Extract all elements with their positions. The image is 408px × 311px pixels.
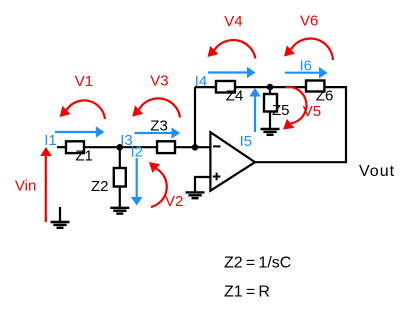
label V4 (224, 13, 242, 30)
wire Z5 branch (269, 87, 271, 94)
current arrow I1 (55, 126, 104, 138)
wire noninverting input (195, 177, 210, 192)
node Z5 junction (267, 84, 274, 91)
wire Z2 to ground (119, 187, 121, 209)
wire feedback riser (194, 87, 196, 147)
current arrow I3 (135, 127, 181, 139)
svg-text:V2: V2 (165, 193, 183, 210)
svg-text:Z3: Z3 (150, 117, 168, 134)
wire Z6 to output (255, 87, 346, 162)
svg-text:I4: I4 (195, 73, 208, 90)
ground noninverting input (186, 192, 205, 198)
svg-text:Z4: Z4 (226, 88, 244, 105)
wire Z4 to Z6 (235, 86, 306, 88)
label Z3 (150, 117, 168, 134)
label I4 (195, 73, 208, 90)
node feedback junction (192, 144, 199, 151)
node I3 (116, 144, 123, 151)
svg-text:V3: V3 (150, 73, 168, 90)
ground under Z2 (110, 208, 129, 214)
svg-text:V5: V5 (303, 103, 321, 120)
wire Z2 branch (119, 147, 121, 168)
voltage arrow V4 (208, 40, 256, 58)
svg-text:Z2 = 1/sC: Z2 = 1/sC (224, 254, 291, 271)
label Z1 (75, 148, 93, 165)
label V2 (165, 193, 183, 210)
wire Z1 to Z3 (84, 146, 157, 148)
impedance Z5 (264, 94, 277, 112)
label Z5 (272, 102, 290, 119)
label I6 (300, 58, 313, 75)
svg-text:I2: I2 (131, 144, 144, 161)
capacitor Z2 (114, 168, 126, 187)
resistor Z3 (157, 141, 175, 153)
wire Z3 to op-amp (175, 146, 210, 148)
voltage arrow V3 (132, 98, 180, 117)
current arrow I5 (249, 88, 261, 132)
svg-text:Z5: Z5 (272, 102, 290, 119)
svg-text:Vout: Vout (359, 163, 395, 180)
svg-text:Vin: Vin (15, 178, 36, 195)
op-amp U1 (210, 132, 255, 191)
resistor Z4 (216, 81, 235, 93)
voltage arrow V1 (60, 100, 105, 119)
svg-text:V1: V1 (75, 73, 93, 90)
svg-text:V6: V6 (300, 13, 318, 30)
svg-text:V4: V4 (224, 13, 242, 30)
label V3 (150, 73, 168, 90)
ground under Z5 (261, 129, 280, 135)
current arrow I4 (208, 67, 256, 79)
label V5 (303, 103, 321, 120)
equation Z2 (224, 254, 291, 271)
current arrow I6 (285, 67, 328, 79)
svg-text:I1: I1 (44, 132, 57, 149)
label I3 (120, 132, 133, 149)
label Vout (359, 163, 395, 180)
label I1 (44, 132, 57, 149)
label Z4 (226, 88, 244, 105)
label V1 (75, 73, 93, 90)
label Vin (15, 178, 36, 195)
ground input reference (51, 207, 70, 228)
svg-text:Z1: Z1 (75, 148, 93, 165)
equation Z1 (224, 284, 270, 301)
label I2 (131, 144, 144, 161)
voltage arrow Vin (40, 147, 52, 222)
svg-text:I6: I6 (300, 58, 313, 75)
wire Z5 to ground (269, 112, 271, 130)
label Z6 (316, 88, 334, 105)
label I5 (240, 133, 253, 150)
resistor Z6 (306, 81, 324, 92)
svg-text:Z2: Z2 (91, 178, 109, 195)
wire input to Z1 (57, 146, 66, 148)
wire feedback top left (195, 86, 216, 88)
svg-text:Z1 = R: Z1 = R (224, 284, 270, 301)
voltage arrow V6 (284, 39, 333, 60)
voltage arrow V5 (283, 87, 306, 130)
svg-text:I5: I5 (240, 133, 253, 150)
current arrow I2 (131, 158, 143, 206)
label Z2 (91, 178, 109, 195)
voltage arrow V2 (149, 162, 167, 207)
resistor Z1 (66, 141, 84, 153)
label V6 (300, 13, 318, 30)
